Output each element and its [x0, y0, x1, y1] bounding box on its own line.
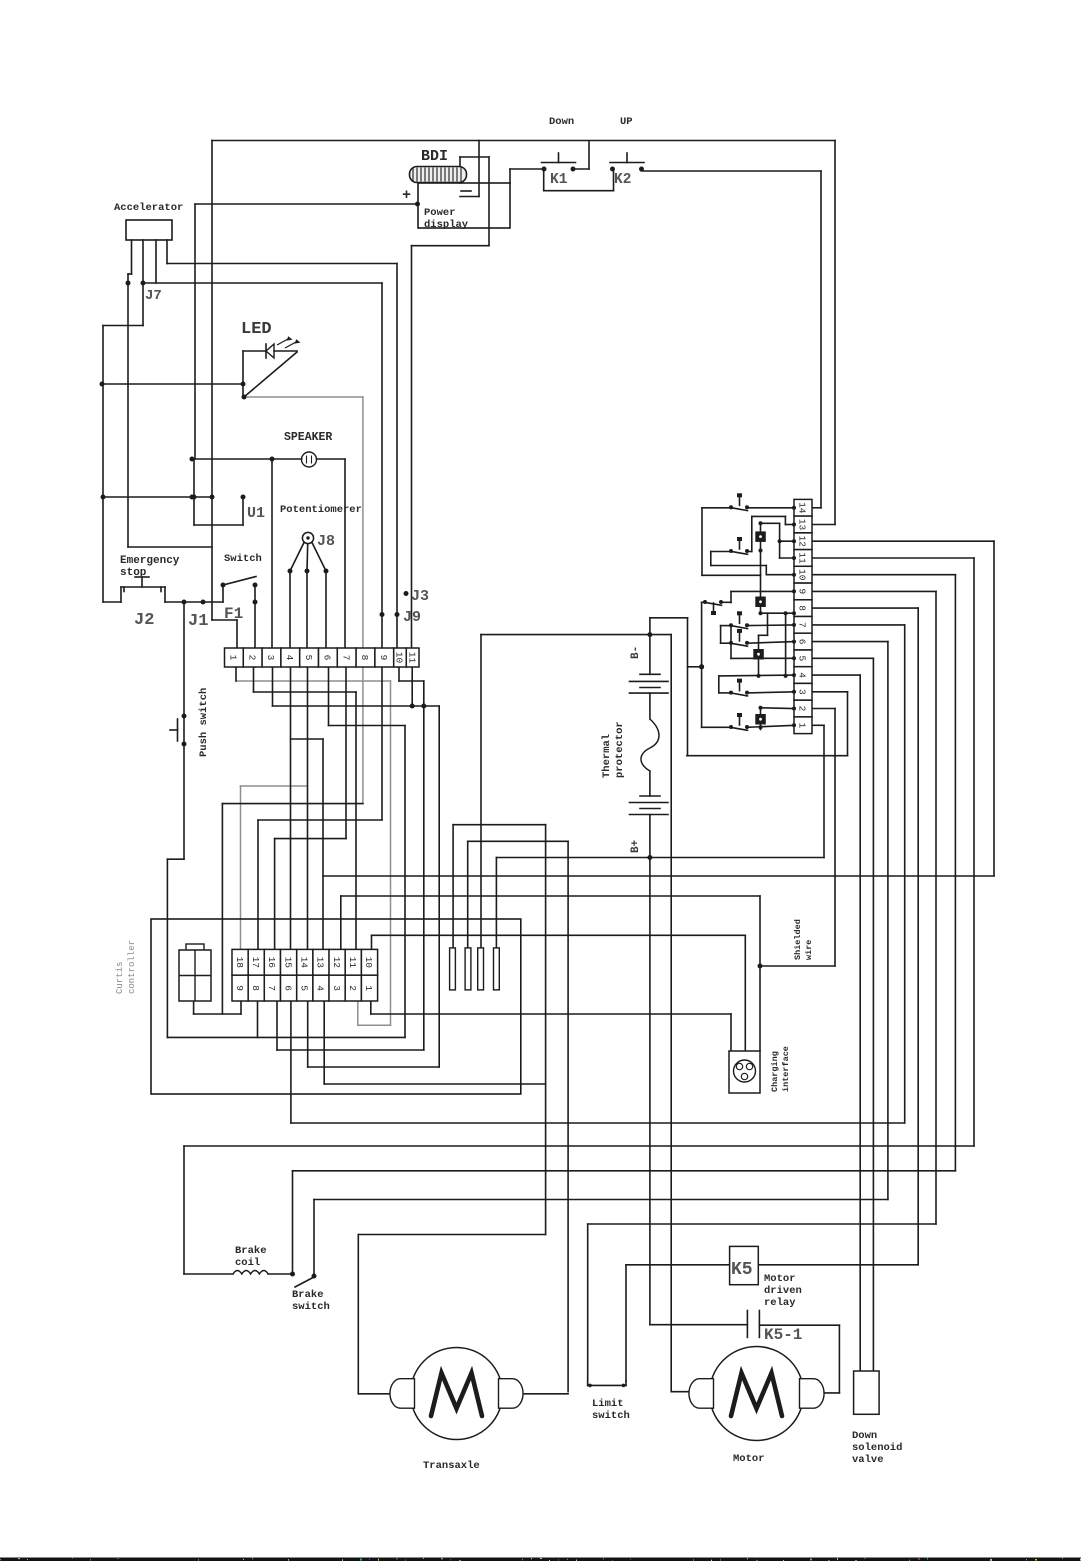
- svg-text:12: 12: [797, 535, 808, 547]
- svg-text:5: 5: [797, 655, 808, 661]
- svg-text:U1: U1: [247, 505, 265, 522]
- svg-text:15: 15: [282, 957, 293, 969]
- svg-text:J7: J7: [145, 288, 162, 304]
- svg-text:B-: B-: [630, 646, 642, 659]
- svg-text:B+: B+: [630, 839, 642, 853]
- svg-text:6: 6: [322, 655, 333, 661]
- svg-text:2: 2: [797, 706, 808, 712]
- svg-text:10: 10: [363, 957, 374, 969]
- svg-text:protector: protector: [614, 721, 626, 778]
- svg-text:Motor: Motor: [733, 1453, 765, 1465]
- svg-text:display: display: [424, 219, 469, 231]
- svg-text:K5-1: K5-1: [764, 1326, 802, 1344]
- svg-text:4: 4: [284, 655, 295, 661]
- svg-text:13: 13: [315, 957, 326, 969]
- svg-text:Motor: Motor: [764, 1273, 796, 1285]
- svg-text:7: 7: [266, 985, 277, 991]
- svg-text:4: 4: [797, 672, 808, 678]
- svg-text:Emergency: Emergency: [120, 555, 180, 567]
- svg-text:relay: relay: [764, 1297, 796, 1309]
- svg-text:J1: J1: [188, 612, 208, 631]
- svg-text:coil: coil: [235, 1257, 260, 1269]
- svg-text:Curtis: Curtis: [115, 962, 125, 994]
- svg-text:controller: controller: [127, 940, 137, 994]
- svg-text:1: 1: [797, 722, 808, 728]
- svg-text:10: 10: [394, 652, 405, 664]
- svg-text:valve: valve: [852, 1454, 884, 1466]
- svg-text:K1: K1: [550, 172, 568, 188]
- svg-text:6: 6: [282, 985, 293, 991]
- svg-text:switch: switch: [292, 1301, 330, 1313]
- svg-text:11: 11: [347, 957, 358, 969]
- svg-text:UP: UP: [620, 116, 633, 128]
- svg-text:6: 6: [797, 639, 808, 645]
- svg-text:7: 7: [797, 622, 808, 628]
- svg-text:7: 7: [340, 655, 351, 661]
- svg-text:8: 8: [359, 655, 370, 661]
- svg-text:17: 17: [250, 957, 261, 968]
- svg-text:8: 8: [797, 605, 808, 611]
- svg-text:13: 13: [797, 519, 808, 531]
- svg-text:Accelerator: Accelerator: [114, 202, 183, 214]
- svg-text:solenoid: solenoid: [852, 1442, 902, 1454]
- svg-text:F1: F1: [224, 605, 243, 623]
- svg-text:5: 5: [298, 985, 309, 991]
- svg-text:Transaxle: Transaxle: [423, 1460, 480, 1472]
- svg-text:18: 18: [234, 957, 245, 969]
- svg-text:Brake: Brake: [235, 1245, 267, 1257]
- svg-text:14: 14: [797, 502, 808, 514]
- svg-text:3: 3: [797, 689, 808, 695]
- svg-text:SPEAKER: SPEAKER: [284, 431, 332, 444]
- svg-text:J2: J2: [134, 611, 154, 630]
- svg-text:1: 1: [228, 655, 239, 661]
- svg-text:10: 10: [797, 569, 808, 581]
- svg-text:11: 11: [797, 552, 808, 564]
- svg-text:interface: interface: [781, 1046, 791, 1092]
- svg-text:stop: stop: [120, 567, 147, 579]
- svg-text:3: 3: [331, 985, 342, 991]
- svg-text:2: 2: [246, 655, 257, 661]
- svg-text:Switch: Switch: [224, 553, 262, 565]
- svg-text:wire: wire: [804, 940, 814, 960]
- svg-text:Power: Power: [424, 207, 456, 219]
- svg-text:3: 3: [265, 655, 276, 661]
- svg-text:11: 11: [406, 652, 417, 664]
- svg-text:Potentiomerer: Potentiomerer: [280, 504, 362, 516]
- svg-text:LED: LED: [241, 320, 272, 339]
- svg-text:9: 9: [797, 589, 808, 595]
- svg-text:12: 12: [331, 957, 342, 969]
- svg-text:+: +: [402, 187, 411, 204]
- svg-text:Shielded: Shielded: [793, 919, 803, 960]
- svg-text:J3: J3: [411, 588, 429, 605]
- svg-text:9: 9: [378, 655, 389, 661]
- svg-text:1: 1: [363, 985, 374, 991]
- svg-text:switch: switch: [592, 1410, 630, 1422]
- svg-text:BDI: BDI: [421, 148, 448, 165]
- svg-text:14: 14: [298, 957, 309, 969]
- svg-text:Down: Down: [549, 116, 574, 128]
- svg-text:Down: Down: [852, 1430, 877, 1442]
- svg-text:K5: K5: [731, 1260, 753, 1280]
- svg-text:Brake: Brake: [292, 1289, 324, 1301]
- svg-text:9: 9: [234, 985, 245, 991]
- svg-text:K2: K2: [614, 172, 631, 188]
- svg-text:Charging: Charging: [770, 1051, 780, 1092]
- svg-text:J9: J9: [403, 609, 421, 626]
- svg-text:J8: J8: [317, 533, 335, 550]
- svg-text:2: 2: [347, 985, 358, 991]
- svg-text:16: 16: [266, 957, 277, 969]
- svg-text:5: 5: [303, 655, 314, 661]
- svg-text:Limit: Limit: [592, 1398, 624, 1410]
- svg-text:Push switch: Push switch: [198, 688, 210, 757]
- svg-text:Thermal: Thermal: [601, 734, 613, 778]
- svg-text:8: 8: [250, 985, 261, 991]
- svg-text:driven: driven: [764, 1285, 802, 1297]
- svg-text:4: 4: [315, 985, 326, 991]
